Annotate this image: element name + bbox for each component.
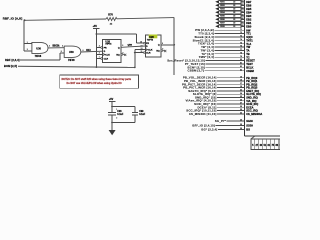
svg-text:R285: R285 bbox=[220, 16, 225, 18]
svg-text:9: 9 bbox=[162, 43, 163, 45]
svg-text:R70: R70 bbox=[108, 13, 113, 16]
svg-text:17: 17 bbox=[240, 83, 242, 85]
svg-text:71: 71 bbox=[240, 29, 242, 31]
svg-text:SG_P7*: SG_P7* bbox=[215, 119, 227, 123]
svg-text:67: 67 bbox=[242, 21, 244, 23]
svg-text:36: 36 bbox=[240, 99, 242, 101]
svg-text:2: 2 bbox=[116, 118, 117, 120]
svg-text:75: 75 bbox=[240, 42, 242, 44]
svg-text:SG40: SG40 bbox=[246, 119, 253, 123]
svg-text:2: 2 bbox=[27, 49, 28, 51]
svg-text:61: 61 bbox=[242, 0, 244, 2]
svg-text:DB6: DB6 bbox=[246, 3, 252, 7]
svg-text:19: 19 bbox=[240, 76, 242, 78]
svg-text:R283: R283 bbox=[220, 9, 225, 11]
svg-text:+5V: +5V bbox=[109, 98, 114, 101]
svg-text:37: 37 bbox=[240, 103, 242, 105]
svg-text:11: 11 bbox=[141, 51, 143, 53]
svg-text:0.1uF: 0.1uF bbox=[139, 114, 146, 116]
svg-text:Q: Q bbox=[158, 45, 160, 47]
svg-text:22: 22 bbox=[233, 16, 235, 18]
svg-text:3: 3 bbox=[49, 45, 50, 47]
svg-text:PR: PR bbox=[104, 47, 107, 49]
svg-text:DB2: DB2 bbox=[246, 17, 252, 21]
svg-text:4: 4 bbox=[99, 45, 100, 48]
svg-text:U30: U30 bbox=[69, 50, 74, 54]
svg-text:CLK: CLK bbox=[148, 49, 153, 51]
svg-text:DB7: DB7 bbox=[246, 0, 252, 4]
svg-text:NQ: NQ bbox=[156, 51, 160, 53]
svg-text:98: 98 bbox=[279, 144, 280, 147]
svg-text:R282: R282 bbox=[220, 5, 225, 7]
svg-text:22: 22 bbox=[233, 9, 235, 11]
svg-text:34: 34 bbox=[240, 92, 242, 95]
svg-text:8: 8 bbox=[162, 49, 163, 51]
svg-text:DB3: DB3 bbox=[246, 14, 252, 18]
svg-text:33: 33 bbox=[240, 89, 242, 91]
svg-text:RBF_IO [A,H]: RBF_IO [A,H] bbox=[3, 17, 23, 21]
svg-text:62: 62 bbox=[242, 4, 244, 6]
svg-text:QB0: QB0 bbox=[128, 45, 133, 47]
svg-text:30: 30 bbox=[240, 124, 242, 126]
svg-text:74F08: 74F08 bbox=[35, 55, 42, 58]
svg-text:63: 63 bbox=[242, 7, 244, 9]
svg-text:3: 3 bbox=[99, 53, 100, 55]
svg-text:38: 38 bbox=[240, 128, 242, 130]
svg-text:CLR: CLR bbox=[104, 58, 109, 60]
svg-text:DB4: DB4 bbox=[246, 10, 252, 14]
svg-text:CLR: CLR bbox=[146, 53, 151, 55]
svg-text:65: 65 bbox=[242, 14, 244, 16]
svg-text:83: 83 bbox=[240, 69, 242, 71]
svg-text:77: 77 bbox=[240, 49, 242, 51]
svg-text:22: 22 bbox=[233, 2, 235, 4]
svg-text:22: 22 bbox=[233, 19, 235, 21]
svg-text:76: 76 bbox=[240, 46, 242, 48]
svg-text:CS_MIN484 [11,15]: CS_MIN484 [11,15] bbox=[189, 112, 217, 116]
svg-text:74: 74 bbox=[240, 38, 242, 41]
svg-text:16: 16 bbox=[240, 86, 242, 88]
svg-text:1: 1 bbox=[27, 42, 28, 44]
svg-text:33: 33 bbox=[240, 112, 242, 114]
svg-text:Q: Q bbox=[118, 47, 120, 49]
svg-text:82: 82 bbox=[240, 66, 242, 68]
svg-text:72: 72 bbox=[240, 32, 242, 34]
svg-text:RBF [2,3,4]: RBF [2,3,4] bbox=[5, 58, 20, 62]
svg-text:U30: U30 bbox=[36, 47, 41, 51]
svg-text:22: 22 bbox=[233, 12, 235, 14]
svg-text:CS_MIN484A: CS_MIN484A bbox=[246, 112, 262, 116]
svg-text:BBClk: BBClk bbox=[53, 46, 61, 48]
svg-text:BOM [2,5]: BOM [2,5] bbox=[4, 64, 17, 68]
svg-text:74F74: 74F74 bbox=[105, 43, 112, 46]
svg-text:SG39: SG39 bbox=[246, 123, 253, 127]
svg-text:6: 6 bbox=[123, 52, 124, 54]
svg-text:5: 5 bbox=[122, 45, 123, 47]
svg-text:C99: C99 bbox=[139, 111, 144, 113]
svg-text:NOTES: Do NOT stuff R25 when u: NOTES: Do NOT stuff R25 when using these… bbox=[62, 78, 132, 81]
svg-text:R288: R288 bbox=[220, 26, 225, 28]
svg-text:BG: BG bbox=[246, 128, 250, 132]
svg-text:+5V: +5V bbox=[93, 25, 98, 28]
svg-text:79: 79 bbox=[240, 56, 242, 58]
svg-text:38: 38 bbox=[240, 106, 242, 108]
svg-text:0.1uF: 0.1uF bbox=[117, 114, 124, 116]
svg-text:18: 18 bbox=[240, 80, 242, 82]
svg-text:22: 22 bbox=[233, 5, 235, 7]
svg-text:CLK: CLK bbox=[105, 54, 110, 56]
svg-text:74F74: 74F74 bbox=[147, 38, 154, 41]
svg-text:1: 1 bbox=[99, 57, 100, 59]
svg-text:CSBM: CSBM bbox=[246, 69, 254, 73]
svg-text:R286: R286 bbox=[220, 19, 225, 21]
svg-text:35: 35 bbox=[240, 96, 242, 98]
svg-text:1: 1 bbox=[116, 109, 117, 111]
svg-text:81: 81 bbox=[240, 63, 242, 65]
svg-text:64: 64 bbox=[242, 10, 244, 13]
svg-text:39: 39 bbox=[240, 109, 242, 111]
svg-text:13: 13 bbox=[141, 48, 143, 50]
svg-text:DB0: DB0 bbox=[246, 24, 252, 28]
svg-text:5: 5 bbox=[61, 51, 62, 53]
svg-text:CSBM [3,7]: CSBM [3,7] bbox=[187, 69, 204, 73]
svg-text:22: 22 bbox=[233, 23, 235, 25]
svg-text:68: 68 bbox=[242, 25, 244, 27]
svg-text:78: 78 bbox=[240, 52, 242, 54]
svg-text:C96: C96 bbox=[117, 111, 122, 113]
svg-text:Do NOT use VALUE/PLCW when usi: Do NOT use VALUE/PLCW when using Hydra I… bbox=[67, 82, 122, 85]
svg-text:80: 80 bbox=[240, 59, 242, 61]
svg-text:22: 22 bbox=[233, 26, 235, 28]
svg-text:73: 73 bbox=[240, 36, 242, 38]
svg-text:10: 10 bbox=[140, 41, 142, 43]
svg-text:DB5: DB5 bbox=[246, 7, 252, 11]
svg-text:PR: PR bbox=[146, 43, 149, 45]
svg-text:BG* [2,3,4]: BG* [2,3,4] bbox=[201, 128, 217, 132]
svg-text:U20: U20 bbox=[149, 36, 154, 39]
svg-text:CK3: CK3 bbox=[86, 50, 91, 52]
svg-text:6: 6 bbox=[83, 50, 84, 52]
svg-text:DB1: DB1 bbox=[246, 21, 252, 25]
svg-text:R281: R281 bbox=[220, 2, 225, 4]
svg-text:66: 66 bbox=[242, 18, 244, 20]
svg-text:74F08: 74F08 bbox=[68, 59, 75, 62]
svg-text:NQ: NQ bbox=[116, 54, 120, 56]
svg-text:39: 39 bbox=[240, 120, 242, 122]
svg-text:R287: R287 bbox=[220, 23, 225, 25]
